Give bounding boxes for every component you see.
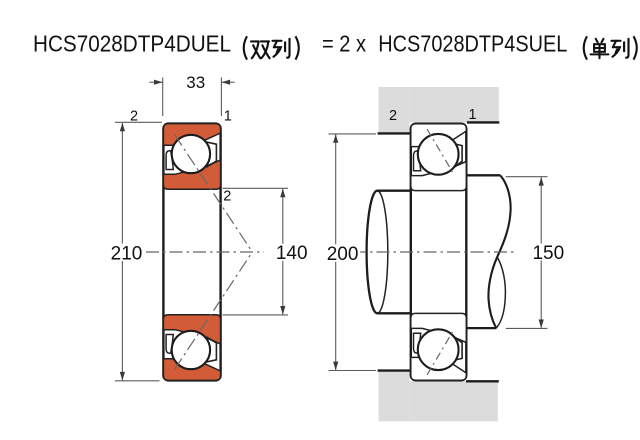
dim 33: leader tails + arrows <box>150 81 163 83</box>
svg-text:2: 2 <box>389 108 397 124</box>
centerline (right drawing) <box>353 251 516 253</box>
dim 200: value text <box>325 244 360 261</box>
svg-text:1: 1 <box>224 108 232 124</box>
contact angle line (left drawing, bottom row) <box>175 252 253 369</box>
shaft bottom line (left of bearing) <box>377 312 411 314</box>
svg-text:140: 140 <box>276 243 308 264</box>
bearing left(colored): cage (left arch, top row) <box>166 335 173 354</box>
svg-text:HCS7028DTP4DUEL: HCS7028DTP4DUEL <box>33 31 231 57</box>
dim 200: arrows <box>333 134 338 143</box>
shaft bottom line (right of bearing) <box>467 327 497 329</box>
svg-text:HCS7028DTP4SUEL: HCS7028DTP4SUEL <box>378 31 567 57</box>
dim 210: arrows <box>120 123 125 132</box>
bearing left(colored): inner ring section (top) <box>163 160 220 189</box>
bearing right(mounted): outer ring section (top) <box>411 357 467 380</box>
dim 140: dimension line <box>282 189 284 314</box>
bearing right(mounted): cage (left arch, top row) <box>414 151 421 171</box>
bearing right(mounted): outer ring section (top) <box>411 124 467 147</box>
bearing right(mounted): ball (top row) <box>418 329 459 370</box>
bearing left(colored): outer ring section (top) <box>163 124 220 146</box>
housing shoulder line top-left <box>378 132 410 134</box>
shaft shoulder section (right of bearing) <box>467 176 498 327</box>
shaft break S-curve (right end) <box>488 175 510 328</box>
bearing right(mounted): cage (right bracket, top row) <box>446 335 462 362</box>
contact angle line (right drawing, bottom row) <box>427 329 455 375</box>
bearing right(mounted): outer box <box>411 124 467 381</box>
dim 150: dimension line <box>540 177 542 327</box>
bearing left(colored): outer ring section (top) <box>163 359 220 381</box>
bearing left(colored): ball (top row) <box>172 135 210 173</box>
bearing right(mounted): cage (left arch, top row) <box>414 333 421 353</box>
shaft break lens curve (right end) <box>496 257 505 328</box>
bearing right(mounted): cage (right bracket, top row) <box>446 142 462 169</box>
bearing left(colored): outer box <box>163 124 220 381</box>
bearing left(colored): cage (left arch, top row) <box>166 151 173 170</box>
housing shoulder line bottom-left <box>378 369 410 371</box>
bearing right(mounted): ball (top row) <box>418 134 459 175</box>
dim 150: extension lines <box>506 176 548 178</box>
bearing left(colored): inner ring section (top) <box>163 315 220 344</box>
dim 210: dimension line <box>121 123 123 380</box>
title CJK (shuang-lie) with parens <box>244 36 247 59</box>
svg-text:150: 150 <box>532 243 564 264</box>
housing block top (gray section) <box>379 87 410 133</box>
housing bore line top-right <box>467 121 499 123</box>
shaft break ellipse (left end) <box>367 191 388 314</box>
dim 150: value text <box>532 244 566 261</box>
dim 210: top leader/tick + label-2 leader <box>115 121 162 123</box>
housing bore line bottom-right <box>466 380 499 382</box>
bearing left(colored): ball (top row) <box>172 331 210 369</box>
dim 140: extension lines <box>223 187 289 189</box>
svg-text:33: 33 <box>186 73 205 92</box>
contact angle line (left drawing, top row) <box>175 135 253 252</box>
dim 150: arrows <box>539 177 544 186</box>
shaft top line (left of bearing) <box>377 190 411 192</box>
dim 140: arrows <box>280 189 285 198</box>
contact angle line (right drawing, top row) <box>427 129 455 175</box>
bearing right(mounted): inner ring section (top) <box>411 162 467 191</box>
bearing left(colored): cage (right bracket, top row) <box>200 141 216 168</box>
dim 210: value text <box>110 244 145 262</box>
shaft body (left section at bore diameter) <box>377 191 411 314</box>
title CJK (dan-lie) with parens <box>584 36 587 59</box>
svg-text:2: 2 <box>223 189 231 205</box>
svg-text:1: 1 <box>469 107 477 123</box>
centerline (left drawing) <box>146 251 264 253</box>
dim 140: value text <box>276 244 310 261</box>
svg-text:= 2 x: = 2 x <box>322 31 366 57</box>
bearing left(colored): cage (right bracket, top row) <box>200 337 216 364</box>
dim 200: dimension line <box>335 135 337 370</box>
bearing right(mounted): inner ring section (top) <box>411 313 467 342</box>
svg-text:200: 200 <box>327 244 359 265</box>
bearing right(mounted): bottom row (mirror of top row) <box>411 313 467 380</box>
housing block bottom (gray section) <box>379 371 410 422</box>
svg-text:2: 2 <box>130 108 138 124</box>
shaft top line (right of bearing) <box>467 174 501 176</box>
dim 200: extension lines <box>329 133 377 135</box>
dim 33: extension lines <box>162 78 164 117</box>
bearing left(colored): bottom row (mirror of top row) <box>163 315 220 381</box>
dim 210: bottom tick <box>115 380 160 382</box>
svg-text:210: 210 <box>111 243 143 264</box>
